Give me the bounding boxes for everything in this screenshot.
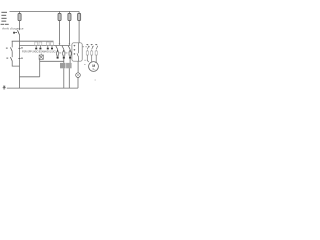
contact K1 pole2	[62, 46, 65, 63]
breaker Q1 box	[72, 43, 82, 61]
wire Z2 down	[69, 68, 78, 88]
label motor terminals	[84, 60, 86, 64]
linkage dashes Q1 to K2	[83, 46, 94, 48]
contact K2 pole3	[95, 44, 98, 63]
filter module Z1	[60, 63, 66, 68]
wire control vertical	[19, 35, 21, 88]
fuse F4	[78, 13, 81, 20]
label below motor	[95, 79, 97, 81]
switch S2	[11, 51, 13, 57]
wire line Q	[20, 44, 71, 46]
switch S0 emergency stop	[15, 30, 19, 35]
switch S1	[11, 41, 13, 47]
fuse F2	[58, 13, 61, 20]
contact K2 pole2	[91, 44, 94, 61]
wire phase drop 1	[59, 11, 61, 44]
contact K1 pole1	[56, 46, 59, 59]
wire phase drop 3	[78, 11, 80, 42]
wire branch to K2	[40, 60, 64, 62]
node arrow 1	[59, 44, 61, 46]
node arrow 2	[69, 44, 71, 46]
svg-text:3~: 3~	[92, 67, 95, 71]
motor M1	[89, 62, 99, 72]
contact K2 pole1	[86, 44, 89, 62]
svg-text:Arrêt d'urgence: Arrêt d'urgence	[2, 27, 24, 31]
fuse F3	[68, 13, 71, 20]
wire connector down	[20, 59, 40, 77]
wire Z1 to PE line	[63, 68, 65, 88]
terminal tag X2	[39, 42, 42, 49]
breaker Q1 internals	[74, 43, 79, 61]
svg-text:PSR-SPP-24DC/ESAM4/3X1/1X2: PSR-SPP-24DC/ESAM4/3X1/1X2	[22, 50, 56, 54]
wire line P	[12, 40, 54, 42]
terminal A1	[18, 47, 20, 49]
terminal tag X1	[35, 42, 38, 49]
wire S2 to control vertical	[12, 61, 19, 66]
wire PE line	[7, 87, 78, 89]
wire control drop	[19, 11, 21, 30]
terminal tag X4	[51, 42, 54, 49]
connector X5	[39, 54, 43, 60]
filter module Z2	[66, 63, 72, 68]
linkage dashes K1	[59, 52, 67, 54]
contact K1 pole3	[68, 46, 71, 63]
terminal A2	[18, 58, 20, 60]
wire top bus	[10, 10, 80, 12]
ground	[3, 86, 6, 89]
node L1 label block	[1, 12, 9, 25]
fuse F1	[18, 14, 21, 21]
lamp H1	[77, 61, 79, 73]
terminal tag X3	[46, 42, 49, 49]
wire phase drop 2	[68, 11, 70, 44]
